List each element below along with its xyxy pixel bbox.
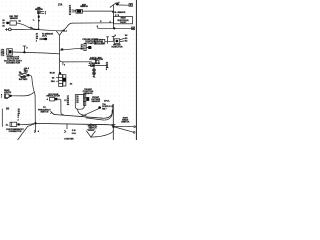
frequency switch tick bbox=[51, 111, 52, 113]
battery terminal dot bbox=[27, 74, 30, 76]
fan terminals bbox=[134, 126, 136, 128]
svg-text:25A: 25A bbox=[51, 80, 55, 83]
svg-text:33: 33 bbox=[76, 102, 78, 104]
neutral switch symbol bbox=[87, 128, 94, 130]
svg-text:41-: 41- bbox=[6, 124, 9, 127]
MAP sensor connector bbox=[76, 9, 82, 13]
wire MAP to riser bbox=[82, 10, 113, 12]
injector pins bbox=[120, 38, 125, 39]
svg-text:8: 8 bbox=[106, 69, 107, 71]
battery feed wire bbox=[30, 75, 36, 122]
connector bar mid bbox=[107, 37, 109, 44]
svg-text:T.P.S. SENSOR: T.P.S. SENSOR bbox=[112, 12, 126, 14]
MAP sensor pins bbox=[72, 9, 76, 12]
CML module box bbox=[37, 11, 40, 14]
trunk lower wire bbox=[35, 123, 113, 126]
rear lights connector dot bbox=[9, 95, 12, 97]
ECM mating connector bbox=[63, 75, 66, 86]
starter stub bbox=[66, 124, 68, 129]
voltage regulator drop wire bbox=[57, 99, 63, 114]
module drop wire to trunk bbox=[78, 109, 87, 115]
svg-text:SENSOR: SENSOR bbox=[91, 101, 100, 103]
riser bottom bbox=[112, 104, 114, 140]
rear lights pin ticks bbox=[5, 98, 8, 100]
wire to lower left bbox=[18, 124, 34, 140]
svg-text:CONNECTOR: CONNECTOR bbox=[89, 59, 103, 61]
inline connector on spark wire bbox=[91, 64, 95, 66]
junction riser/bus bbox=[113, 27, 115, 29]
rear fascia box bbox=[114, 17, 133, 24]
speed sensor box bbox=[102, 39, 105, 43]
svg-text:CONNECTOR: CONNECTOR bbox=[9, 131, 22, 133]
svg-text:80: 80 bbox=[6, 107, 10, 111]
stub below junction bbox=[35, 125, 37, 132]
sensor module box bbox=[75, 95, 84, 110]
fuse pair drop bbox=[93, 66, 95, 68]
ring terminal bbox=[8, 28, 11, 31]
inline connector on descender bbox=[61, 49, 63, 51]
svg-text:7: 7 bbox=[45, 14, 46, 16]
antenna tick A bbox=[112, 36, 114, 41]
pin stubs bbox=[40, 11, 44, 13]
customer connector box bbox=[10, 122, 17, 126]
rear lights connector box bbox=[4, 94, 9, 98]
spark wire end tick bbox=[106, 66, 108, 68]
wire speed sensor to injector bbox=[105, 40, 114, 42]
svg-text:6 3A: 6 3A bbox=[72, 132, 77, 135]
terminal dot right of module bbox=[98, 106, 101, 109]
wire CML drop bbox=[38, 14, 40, 16]
svg-text:INJECTOR: INJECTOR bbox=[111, 47, 122, 49]
bus end connector bbox=[132, 27, 135, 30]
voltage regulator box bbox=[50, 97, 55, 101]
lower connector on CML drop bbox=[38, 20, 40, 21]
fuse pair circles bbox=[93, 69, 96, 72]
left riser wire bbox=[1, 109, 3, 127]
coil sensor box bbox=[10, 21, 16, 25]
antenna connector top bbox=[110, 3, 116, 8]
neutral switch stub bbox=[90, 124, 92, 129]
svg-text:CONNECTOR: CONNECTOR bbox=[6, 63, 20, 65]
data link connector bbox=[95, 60, 99, 63]
fan junction dot bbox=[112, 125, 115, 127]
svg-text:SWITCH: SWITCH bbox=[40, 112, 48, 114]
main fuse box bbox=[20, 74, 26, 77]
bus splice marks bbox=[56, 31, 62, 36]
wire lower right bus bbox=[98, 27, 134, 28]
fan wire lower bbox=[114, 127, 134, 133]
descender wire bbox=[59, 35, 61, 72]
fan wire upper bbox=[114, 126, 134, 128]
sensor connector bar bbox=[83, 94, 85, 105]
svg-text:STARTER: STARTER bbox=[64, 137, 74, 140]
svg-text:APCA: APCA bbox=[104, 99, 110, 102]
coil sensor connector dot bbox=[6, 22, 9, 25]
svg-text:27A: 27A bbox=[58, 4, 63, 7]
svg-text:LIGHTS: LIGHTS bbox=[4, 92, 12, 94]
ECM junction dot bbox=[59, 72, 61, 74]
wire from coil sensor to bus bbox=[16, 23, 38, 29]
starter wire arc bbox=[91, 130, 113, 137]
svg-text:90: 90 bbox=[69, 14, 71, 16]
sensor connector block bbox=[86, 97, 89, 101]
svg-text:G M: G M bbox=[72, 130, 76, 132]
customer connector dot bbox=[17, 123, 20, 125]
cruise connector block bbox=[88, 46, 91, 49]
small connector top far right bbox=[129, 4, 133, 7]
interlock actuator box bbox=[7, 49, 13, 55]
stub with label 4 bbox=[62, 62, 64, 65]
svg-text:7: 7 bbox=[1, 97, 2, 99]
trunk middle strand bbox=[86, 110, 112, 120]
svg-text:12-PL: 12-PL bbox=[42, 35, 48, 37]
front injector box bbox=[114, 39, 120, 44]
svg-text:NB 7: NB 7 bbox=[102, 109, 106, 111]
voltage regulator terminal bbox=[55, 98, 58, 101]
interlock wire bbox=[12, 52, 59, 54]
svg-text:BATTERY: BATTERY bbox=[19, 78, 28, 81]
ECM connector bar bbox=[59, 74, 63, 86]
svg-text:SENSOR: SENSOR bbox=[10, 18, 19, 20]
svg-text:46: 46 bbox=[81, 48, 83, 51]
svg-text:CADDY: CADDY bbox=[120, 21, 127, 24]
splice dot B2 bbox=[44, 38, 47, 41]
riser top right bbox=[112, 5, 114, 28]
ring small bbox=[24, 70, 27, 72]
inline connector on CML drop bbox=[38, 16, 40, 18]
svg-text:6: 6 bbox=[110, 22, 111, 24]
svg-text:SENSOR: SENSOR bbox=[80, 6, 88, 8]
wire from ring terminal to bus bbox=[11, 28, 39, 30]
riser cross bar bbox=[112, 123, 116, 125]
border frame right edge bbox=[135, 0, 137, 140]
main bus wire bbox=[39, 23, 114, 31]
svg-text:5CAPD 8 14: 5CAPD 8 14 bbox=[102, 105, 114, 108]
svg-text:SWITCH: SWITCH bbox=[121, 122, 129, 124]
ECM pin ticks bbox=[56, 76, 59, 78]
cruise connector bar bbox=[84, 43, 86, 50]
trunk upper wire bbox=[52, 104, 113, 118]
wire terminal to trunk bbox=[82, 109, 99, 117]
svg-text:ECM: ECM bbox=[50, 72, 55, 74]
wire rear lights to battery feed bbox=[12, 92, 34, 96]
wire customer connector to junction bbox=[20, 124, 34, 125]
junction dot on interlock wire bbox=[23, 51, 25, 53]
stub up with bar bbox=[23, 46, 25, 52]
junction dot trunk bbox=[34, 122, 36, 124]
data link branch wire bbox=[60, 59, 92, 62]
svg-text:2: 2 bbox=[18, 119, 19, 121]
cruise branch wire bbox=[60, 48, 84, 50]
spark wire bbox=[89, 65, 108, 67]
